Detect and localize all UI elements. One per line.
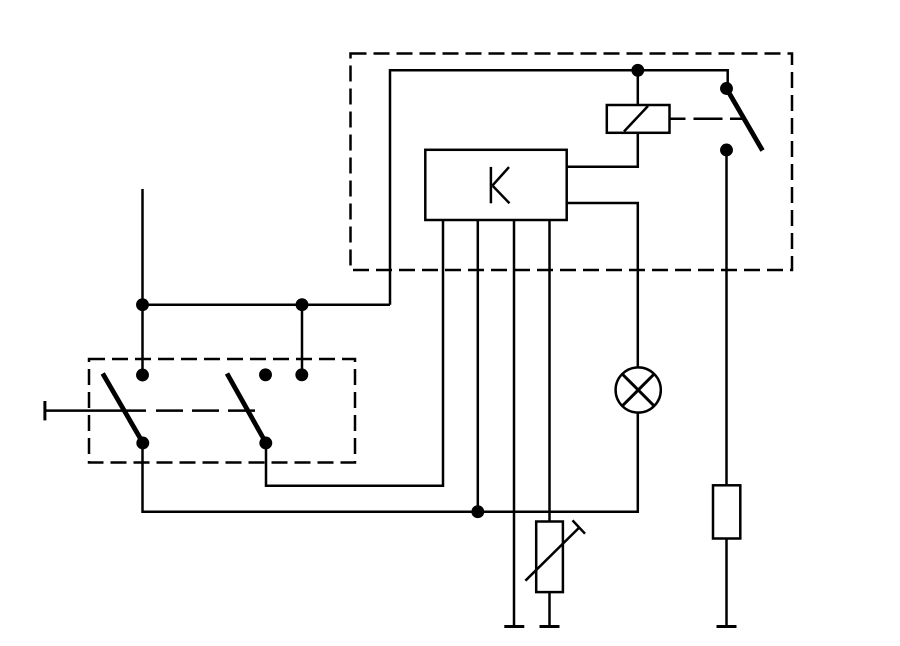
wire: vertical stub to switch 1 top terminal bbox=[141, 189, 144, 375]
wire: contact lower terminal down to resistor R1 bbox=[725, 150, 728, 485]
ground terminal bar (right) bbox=[717, 625, 737, 628]
dashed enclosure: switch unit bbox=[89, 359, 355, 463]
wire: mid-left horizontal bus bbox=[143, 303, 391, 306]
wire: variable resistor R2 to ground terminal bbox=[548, 592, 551, 625]
wire: top bus to relay coil bbox=[637, 70, 640, 105]
wire: K pin 2 to bottom bus bbox=[477, 220, 480, 512]
junction: drop meets mid bus bbox=[297, 300, 307, 310]
switch S3 (right, in switch unit) bbox=[227, 370, 307, 449]
wire: control unit K to lamp bbox=[567, 203, 638, 367]
junction: K pin 2 on bottom bus bbox=[473, 507, 483, 517]
wire: resistor R1 to ground terminal bbox=[725, 539, 728, 626]
ground terminal bar (R2) bbox=[540, 625, 560, 628]
relay coil K1 bbox=[607, 105, 670, 133]
junction: coil tap on top bus bbox=[633, 65, 643, 75]
wire: bottom bus (switch 1 bottom, across, up to lamp) bbox=[143, 413, 638, 512]
relay contact S1 bbox=[721, 83, 762, 155]
wire: K pin 4 to variable resistor R2 bbox=[548, 220, 551, 522]
lamp E1 bbox=[616, 367, 661, 412]
wire: K pin 3 to ground terminal bbox=[513, 220, 516, 625]
wire: drop to switch 2 upper-right terminal bbox=[301, 305, 304, 375]
dashed enclosure: relay control unit bbox=[351, 54, 793, 271]
actuator end bar bbox=[43, 401, 46, 420]
mechanical actuator link (dashed part) bbox=[156, 409, 258, 412]
mechanical link: coil to contact (dashed) bbox=[670, 117, 743, 120]
junction: stub meets mid bus bbox=[137, 300, 147, 310]
wire: coil bottom to control unit K bbox=[567, 133, 638, 167]
wire: supply feed (up, across top bus, down to contact) bbox=[390, 70, 728, 304]
label: K bbox=[491, 167, 510, 203]
ground terminal bar (K pin 3) bbox=[504, 625, 524, 628]
wire: K pin 1 to switch 2 bottom terminal bbox=[266, 220, 443, 486]
mechanical actuator rod (solid part) bbox=[45, 409, 146, 412]
variable resistor R2 (trimmer) bbox=[525, 520, 585, 592]
resistor R1 bbox=[713, 485, 740, 538]
switch S2 (left, in switch unit) bbox=[103, 370, 148, 448]
control unit U1 (box K) bbox=[425, 150, 566, 220]
